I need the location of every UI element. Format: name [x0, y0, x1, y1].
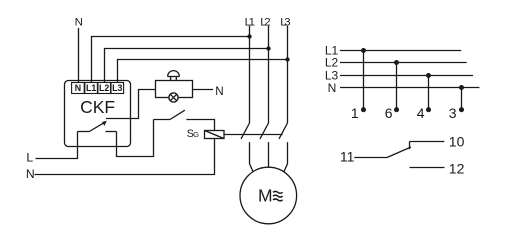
svg-text:L1: L1: [86, 83, 96, 93]
svg-text:G: G: [193, 130, 199, 139]
svg-text:N: N: [215, 85, 223, 98]
svg-text:3: 3: [449, 105, 457, 121]
svg-text:L3: L3: [112, 83, 122, 93]
svg-text:N: N: [328, 81, 337, 95]
svg-text:11: 11: [340, 149, 355, 165]
svg-text:L1: L1: [245, 16, 255, 28]
svg-text:L2: L2: [260, 16, 270, 28]
svg-text:10: 10: [449, 133, 465, 149]
svg-text:4: 4: [417, 105, 425, 121]
svg-text:12: 12: [449, 160, 465, 176]
svg-text:L2: L2: [325, 56, 339, 70]
svg-text:L: L: [26, 150, 33, 164]
svg-text:N: N: [75, 83, 81, 93]
svg-text:CKF: CKF: [80, 97, 115, 117]
svg-text:L3: L3: [280, 16, 290, 28]
svg-text:N: N: [26, 167, 35, 181]
svg-text:M: M: [258, 186, 273, 206]
svg-text:N: N: [75, 16, 83, 28]
svg-text:6: 6: [385, 105, 393, 121]
svg-text:1: 1: [351, 105, 359, 121]
svg-text:L2: L2: [99, 83, 109, 93]
